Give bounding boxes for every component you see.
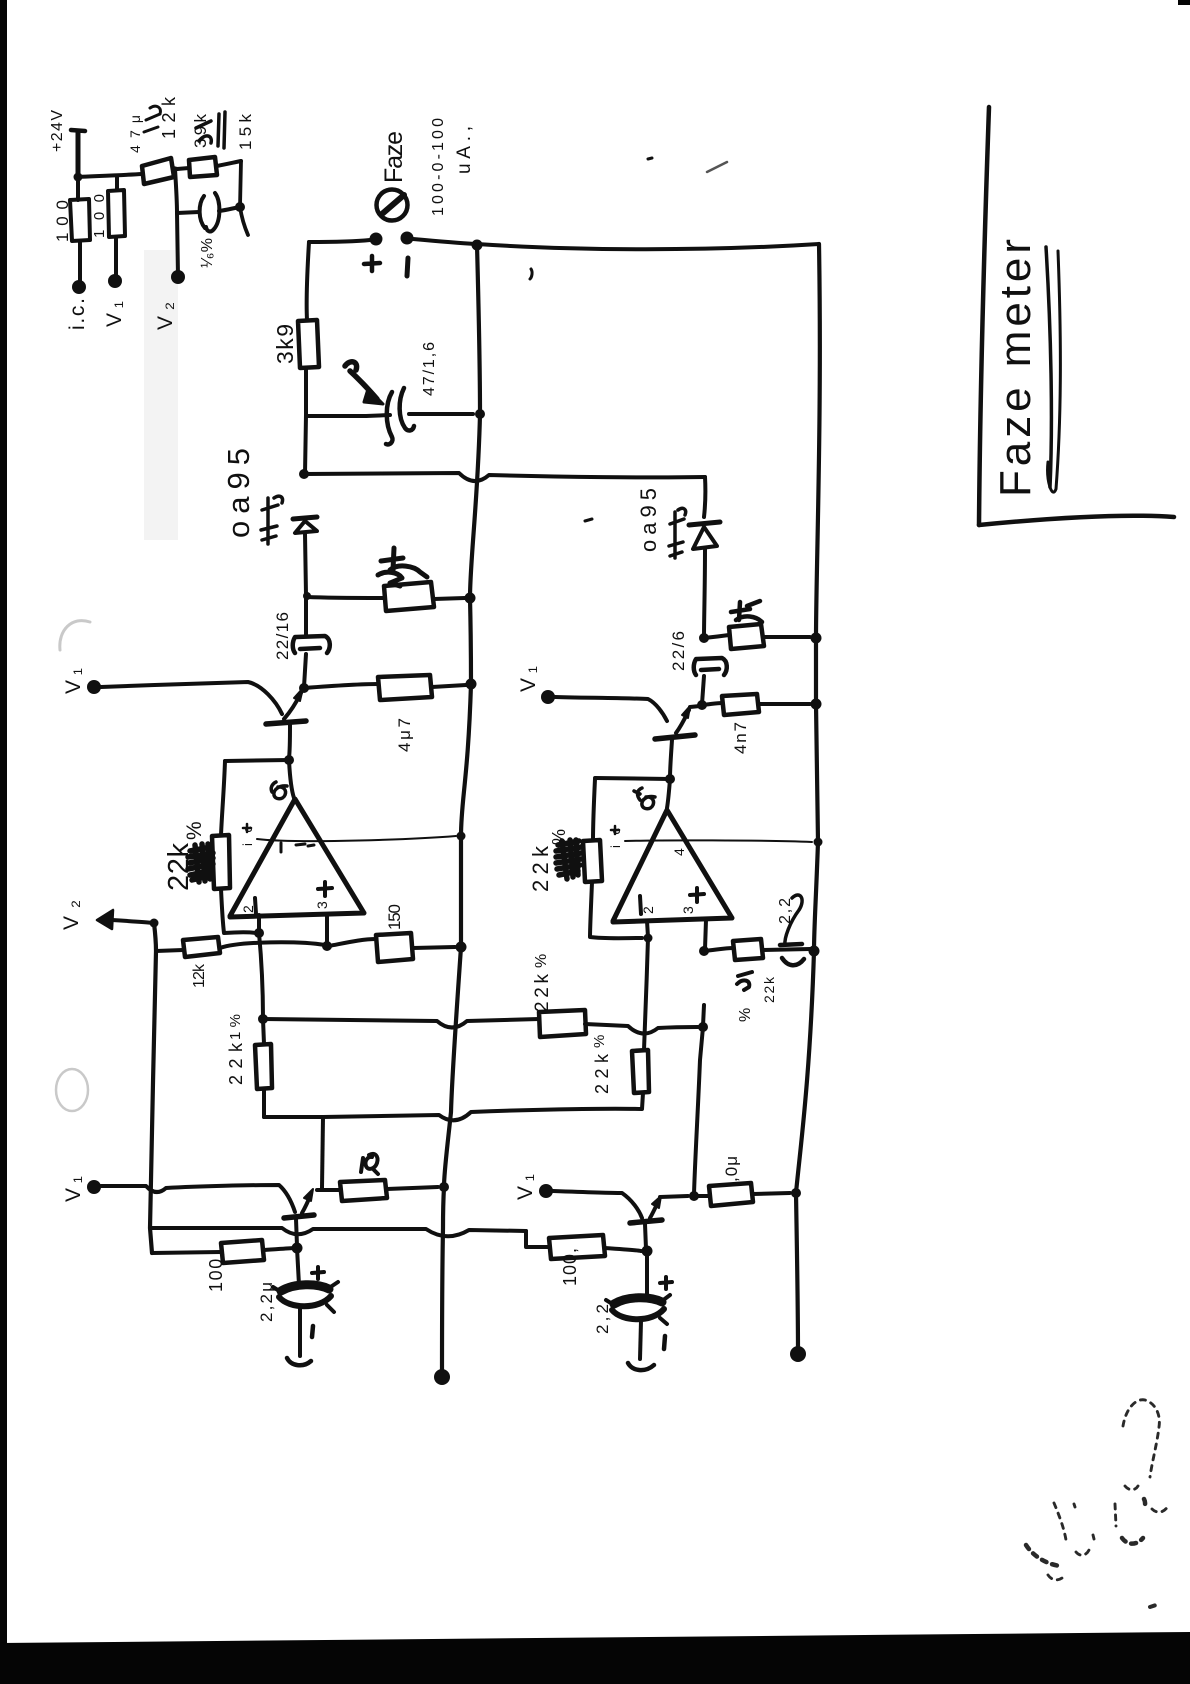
wire corner down to 3k9: [307, 242, 309, 320]
pin2 drop: [257, 915, 261, 933]
wire R6 to rail: [434, 598, 465, 599]
right rail vertical: [796, 244, 820, 1354]
wire V1 to base ch2: [553, 1191, 642, 1218]
node on mid rail: [466, 679, 477, 690]
signature big loop: [1123, 1400, 1159, 1477]
svg-text:4: 4: [671, 848, 687, 856]
wire pin3 to 22k ch2: [704, 948, 733, 951]
svg-text:2,2μ: 2,2μ: [257, 1282, 276, 1322]
svg-text:22k: 22k: [528, 845, 553, 892]
scan border bottom bar: [0, 1632, 1190, 1684]
wire diode down: [305, 534, 306, 636]
speck dot2: [585, 519, 592, 521]
plus sign: [312, 1267, 324, 1279]
svg-text:47μ: 47μ: [127, 115, 143, 153]
signature vertical d: [1115, 1504, 1116, 1526]
resistor R6 10k: [384, 582, 434, 611]
node collector ch1: [299, 683, 309, 693]
title box left line: [979, 107, 989, 525]
wire R13 to right rail: [764, 635, 810, 639]
svg-text:150: 150: [385, 904, 404, 930]
+24V terminal tick: [71, 130, 85, 131]
pin3 drop ch2: [705, 920, 706, 949]
svg-text:2: 2: [240, 905, 256, 913]
wire pin3 to 150: [329, 939, 376, 946]
scrawl marks: [737, 972, 752, 990]
wire 12k to pin3: [220, 942, 325, 948]
wire right leg: [240, 161, 248, 235]
wire cap to right leg: [219, 207, 240, 211]
wire horizontal y474 with hop: [304, 473, 705, 481]
wire V2 to rail: [112, 920, 154, 923]
resistor R8 22k feedback: [212, 835, 230, 889]
node V2 rail top: [150, 919, 159, 928]
scrawl near oa95 ch2: [669, 508, 686, 558]
resistor R9 12k: [183, 937, 220, 957]
svg-text:100: 100: [91, 194, 108, 238]
pen arrow at C1: [345, 362, 377, 399]
wire cap to collector node: [304, 654, 306, 687]
signature blob c: [1143, 1499, 1145, 1508]
transistor Q1 emitter: [289, 725, 290, 758]
transistor Q1 collector with arrow: [284, 693, 301, 719]
svg-text:22/16: 22/16: [273, 612, 292, 660]
svg-text:V₁: V₁: [517, 666, 540, 692]
node pin3 ch2: [699, 946, 709, 956]
diode D2 oa95: [689, 522, 720, 525]
V2 rail vertical: [150, 923, 156, 1253]
resistor R19 100: [221, 1240, 264, 1263]
wire feedback left down ch2: [593, 779, 595, 840]
wire R19 to emitter node: [264, 1248, 296, 1250]
speck dash: [707, 162, 727, 172]
node emitter ch2: [642, 1246, 653, 1257]
terminal i.c.: [72, 280, 86, 294]
node pin7 on mid rail: [457, 832, 466, 841]
pin3 drop: [325, 914, 329, 945]
signature dot g: [1074, 1504, 1075, 1507]
scrawl above 39k: [196, 121, 211, 143]
svg-text:100,: 100,: [560, 1248, 580, 1286]
transistor Q4 emitter: [645, 1224, 646, 1249]
svg-text:22/6: 22/6: [669, 631, 688, 671]
svg-text:V₁: V₁: [62, 668, 85, 694]
signature lower arc: [1048, 1575, 1065, 1580]
wire cap to collector node: [702, 676, 704, 704]
svg-text:4μ7: 4μ7: [395, 718, 414, 752]
resistor R12 22k 1pct horizontal: [539, 1010, 586, 1037]
resistor R15 22k feedback ch2: [583, 840, 602, 882]
svg-text:%: %: [533, 954, 550, 968]
diode D1 oa95: [293, 517, 317, 519]
capacitor C1 47/16 plates: [386, 392, 393, 444]
svg-text:3: 3: [680, 906, 696, 914]
svg-text:2,2: 2,2: [593, 1304, 612, 1334]
resistor R17 22k horizontal ch2: [733, 939, 763, 960]
wire cap 47/16 branch: [306, 414, 366, 418]
pin3 mark plus: [318, 882, 332, 896]
wire V2 node to cap: [177, 212, 199, 213]
wire top to right corner: [477, 244, 819, 249]
label 6 at apex: [271, 782, 287, 799]
svg-text:V₁: V₁: [62, 1176, 85, 1202]
node on right rail: [791, 1188, 801, 1198]
scribble blob ch2: [556, 840, 581, 879]
svg-text:V₁: V₁: [103, 301, 126, 327]
wire to 12k: [156, 950, 183, 951]
wire V1 to base with dip: [101, 1185, 295, 1212]
node mid rail top: [472, 240, 483, 251]
wire corner down to D2: [704, 477, 705, 517]
resistor R4 39k: [189, 157, 217, 177]
node on mid rail: [439, 1182, 449, 1192]
node emitter ch2: [665, 774, 675, 784]
minus sign: [664, 1336, 665, 1349]
node emitter: [292, 1243, 303, 1254]
wire meter- to mid rail node: [413, 239, 475, 244]
ground ch1: [287, 1358, 311, 1365]
svg-text:22k: 22k: [532, 974, 553, 1013]
transistor Q1 base bar: [266, 721, 306, 724]
svg-text:100,: 100,: [206, 1252, 226, 1292]
terminal bottom of right rail: [790, 1346, 806, 1362]
svg-text:V₂: V₂: [154, 302, 177, 330]
svg-text:2: 2: [640, 906, 656, 914]
wire 3k9 to node: [305, 368, 306, 474]
pin2 column down: [259, 933, 263, 1019]
transistor Q3 emitter: [296, 1219, 297, 1246]
svg-text:4n7: 4n7: [731, 722, 750, 754]
capacitor C5 2,2u electrolytic: [281, 1285, 329, 1291]
title box bottom line: [979, 516, 1174, 525]
node collector ch2 bottom: [689, 1191, 699, 1201]
node pin2 ch1: [254, 928, 264, 938]
resistor R3 12k: [142, 158, 174, 184]
transistor Q3 collector with arrow: [302, 1194, 311, 1213]
svg-text:3: 3: [314, 901, 330, 909]
wire to 44k: [704, 635, 729, 638]
terminal V2 arrow: [97, 910, 113, 929]
wire R21 to emitter node: [605, 1248, 641, 1251]
capacitor C6 2,2 electrolytic: [614, 1298, 662, 1304]
node emitter ch1: [284, 755, 294, 765]
svg-text:22k: 22k: [226, 1042, 246, 1085]
svg-text:¹⁄₆%: ¹⁄₆%: [199, 238, 216, 268]
svg-text:%: %: [737, 1008, 754, 1022]
resistor R5 3k9: [298, 320, 319, 368]
resistor R21 100 ch2: [549, 1235, 605, 1259]
svg-text:22k: 22k: [592, 1053, 612, 1094]
svg-text:100: 100: [53, 200, 72, 242]
svg-text:oa95: oa95: [221, 448, 256, 538]
resistor R2 100: [108, 190, 125, 237]
resistor R18 10k: [340, 1180, 387, 1201]
corner down to R21: [526, 1231, 549, 1247]
scan border top-right tick: [1178, 0, 1190, 5]
node pin7 on right rail: [814, 838, 823, 847]
faint circle smudge: [56, 1069, 88, 1111]
svg-text:1%: 1%: [227, 1014, 244, 1040]
svg-text:47/1,6: 47/1,6: [421, 342, 438, 396]
transistor Q2 collector with arrow: [676, 710, 689, 733]
label 6 at apex ch2: [634, 788, 655, 809]
node on right rail: [811, 699, 822, 710]
svg-text:100-0-100: 100-0-100: [430, 118, 447, 216]
wire to 4n7: [304, 684, 378, 688]
svg-text:+24V: +24V: [49, 110, 66, 152]
capacitor C3 22/6 plates: [697, 658, 727, 675]
wire to 4n7 ch2: [702, 703, 722, 705]
terminal V1 ch1: [87, 680, 101, 694]
node on right rail: [811, 633, 822, 644]
title double underline: [1046, 247, 1051, 487]
plus sign: [660, 1277, 672, 1289]
terminal V1: [108, 274, 122, 288]
pin3 column down ch2: [703, 1005, 704, 1026]
signature speck: [1150, 1605, 1156, 1607]
wire emitter to cap ch2: [645, 1251, 649, 1297]
wire feedback top ch1: [225, 760, 289, 761]
svg-text:uA.,: uA.,: [454, 126, 475, 174]
terminal V1 ch1 bottom: [87, 1180, 101, 1194]
pin2 mark: [255, 898, 256, 914]
svg-text:i.c.: i.c.: [66, 298, 89, 330]
svg-text:%: %: [591, 1035, 608, 1048]
wire R20 to right rail: [753, 1193, 790, 1194]
svg-text:,0μ: ,0μ: [722, 1156, 741, 1182]
faint arc smudge: [60, 621, 90, 650]
transistor Q2 emitter: [670, 740, 672, 778]
node on mid rail: [465, 593, 476, 604]
wire cap down: [298, 1308, 302, 1356]
wire feedback bottom: [221, 889, 256, 933]
terminal V1 ch2: [541, 690, 555, 704]
wire y1021 with hops: [263, 1019, 539, 1028]
svg-text:3k9: 3k9: [272, 324, 298, 364]
scrawl label over R6: [378, 548, 427, 586]
node junction: [74, 173, 83, 182]
wire +24V down: [76, 131, 81, 177]
faint scanner smudge band: [144, 250, 178, 540]
meter slash: [382, 195, 404, 214]
svg-text:22k: 22k: [761, 976, 777, 1003]
node 44k branch: [699, 633, 709, 643]
transistor Q2 base bar: [655, 735, 695, 739]
wire cap down ch2: [640, 1321, 641, 1359]
plus sign: [364, 256, 380, 271]
wire y1229 long: [150, 1228, 526, 1236]
svg-text:12k: 12k: [191, 963, 208, 988]
node pin3 ch1: [322, 941, 332, 951]
capacitor C2 22/16 plates: [296, 636, 330, 653]
terminal bottom of mid rail: [434, 1369, 450, 1385]
node mid: [175, 169, 177, 213]
resistor R11 22k 1pct vertical: [263, 1019, 264, 1044]
pin3 mark plus ch2: [690, 888, 704, 902]
wire bus to 12k: [78, 174, 142, 177]
pin7 thin line ch2: [625, 840, 812, 842]
node 10k branch: [303, 592, 311, 600]
wire feedback bottom ch2: [590, 882, 642, 938]
wire V1 to base ch2: [555, 697, 667, 721]
svg-text:39k: 39k: [191, 114, 210, 149]
scribble blob ch1: [188, 844, 213, 882]
capacitor C4 2,2: [785, 895, 802, 945]
resistor R16 22k vertical ch2: [632, 1050, 649, 1093]
transistor Q3 base bar: [284, 1215, 314, 1218]
node on mid rail: [475, 409, 485, 419]
signature arc b: [1152, 1506, 1168, 1512]
scrawl near oa95 ch1: [261, 496, 283, 544]
meter + terminal: [370, 233, 383, 246]
node junction: [235, 202, 245, 212]
pin2 mark ch2: [640, 896, 641, 914]
pin2 column down ch2: [644, 938, 648, 1050]
wire meter+ to 3k9: [309, 240, 370, 242]
label 10k scrawl: [361, 1154, 378, 1174]
signature big left stroke: [1026, 1545, 1060, 1566]
speck dot: [648, 158, 652, 159]
15k underline strokes: [218, 112, 225, 148]
meter - terminal: [401, 232, 414, 245]
svg-text:%: %: [183, 821, 206, 840]
wire to V2 terminal: [177, 213, 178, 276]
svg-text:Faze meter: Faze meter: [991, 239, 1040, 497]
resistor R13 44k: [729, 624, 764, 649]
node collector ch2: [697, 700, 707, 710]
wire diode down: [704, 549, 705, 636]
capacitor 9/16 plates: [200, 196, 205, 228]
signature dot i: [1093, 1535, 1094, 1539]
resistor R10 150: [376, 933, 413, 962]
node below 3k9: [299, 469, 309, 479]
wire y1253 from V2 rail corner: [152, 1252, 221, 1253]
mid rail vertical: [442, 245, 480, 1377]
wire feedback top ch2: [595, 778, 670, 779]
svg-text:15k: 15k: [236, 114, 255, 151]
terminal V1 ch2 bottom: [539, 1184, 553, 1198]
wire 150 to rail: [413, 947, 455, 948]
minus sign: [312, 1326, 313, 1337]
resistor R1 100: [70, 199, 90, 241]
meter M1 body: [377, 190, 408, 221]
wire R17 to rail through cap: [763, 949, 810, 950]
node pin2 ch2: [644, 934, 653, 943]
svg-text:12k: 12k: [159, 96, 179, 139]
signature arc a: [1125, 1486, 1138, 1490]
signature diagonal f: [1054, 1503, 1066, 1540]
op-amp U2 triangle: [613, 810, 732, 922]
label 7 dashes: [281, 843, 314, 852]
scrawl label over R13: [731, 601, 762, 622]
wire feedback left down: [221, 761, 225, 835]
svg-text:V₂: V₂: [60, 900, 83, 930]
resistor R20 10k ch2: [709, 1183, 753, 1206]
svg-text:Faze: Faze: [380, 131, 408, 183]
svg-text:2,2: 2,2: [777, 898, 794, 924]
node y1021 left: [258, 1014, 268, 1024]
drop to Q3 collector: [322, 1117, 323, 1188]
node y1021 right: [698, 1022, 708, 1032]
signature arc e heavy: [1122, 1538, 1143, 1544]
wire V1 to base: [101, 682, 282, 714]
ground ch2: [628, 1363, 654, 1370]
wire R14 to rail: [759, 702, 810, 706]
speck comma: [530, 269, 532, 279]
node on right rail: [809, 946, 820, 957]
terminal V2: [171, 270, 185, 284]
wire emitter to apex: [289, 760, 294, 798]
svg-text:V₁: V₁: [514, 1174, 537, 1200]
wire y1118 with hop and T: [264, 1093, 643, 1120]
op-amp U1 triangle: [230, 799, 364, 917]
wire R7 to rail: [432, 685, 466, 687]
transistor Q4 collector with arrow: [650, 1200, 659, 1218]
wire emitter to apex ch2: [667, 779, 670, 808]
pin7 thin line ch1: [257, 836, 456, 841]
wire to 10k: [307, 597, 384, 598]
wire emitter to cap: [297, 1248, 299, 1285]
transistor Q4 base bar: [630, 1220, 662, 1223]
wire to 10k ch2: [694, 1194, 709, 1198]
scan border left bar: [0, 0, 7, 1645]
wire R18 to rail: [387, 1187, 438, 1189]
minus sign (rotated): [407, 258, 408, 276]
pin2 drop ch2: [647, 921, 648, 937]
wire collector node to 10k: [317, 1188, 340, 1192]
signature arc h: [1076, 1550, 1089, 1555]
node y1021 junction: [694, 1027, 703, 1194]
resistor R14 4n7: [722, 694, 759, 715]
resistor R7 4n7: [378, 675, 432, 700]
node on mid rail: [456, 942, 467, 953]
svg-text:oa95: oa95: [636, 488, 661, 552]
